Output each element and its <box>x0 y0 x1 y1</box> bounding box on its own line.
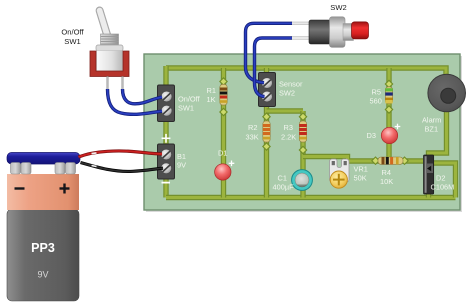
pushbutton SW2 <box>291 17 369 48</box>
label R2 33K <box>246 123 259 141</box>
svg-text:9V: 9V <box>37 270 48 280</box>
wire: D2 bottom to ground rail <box>426 189 431 198</box>
trimmer VR1 <box>330 159 350 188</box>
node via R2 top <box>263 113 270 120</box>
svg-text:VR1: VR1 <box>354 165 368 174</box>
wire: left rail (SW1 terminal to B1 terminal to bottom rail) <box>163 66 168 198</box>
terminal block On/Off SW1 <box>158 85 175 122</box>
terminal block B1 <box>158 144 175 179</box>
node via R1 bottom <box>220 108 227 115</box>
wire: sensor / R2 branch <box>264 68 269 198</box>
buzzer BZ1 <box>428 74 466 112</box>
label VR1 50K <box>354 165 368 183</box>
svg-text:400µF: 400µF <box>273 182 295 191</box>
resistor R3 <box>299 121 306 142</box>
svg-text:9V: 9V <box>177 160 186 169</box>
svg-text:C1: C1 <box>278 174 287 183</box>
wire: battery - (black) to B1 terminal bottom <box>81 163 164 172</box>
svg-text:On/Off: On/Off <box>61 28 84 37</box>
label D2 C106M <box>431 174 455 192</box>
node via R5 top <box>385 80 392 87</box>
svg-text:SW1: SW1 <box>178 104 194 113</box>
label D3 <box>367 131 376 140</box>
svg-text:R5: R5 <box>372 88 381 97</box>
resistor R1 <box>220 84 227 105</box>
label R3 2.2K <box>281 123 296 141</box>
svg-text:PP3: PP3 <box>31 241 55 255</box>
svg-text:D2: D2 <box>436 174 445 183</box>
svg-text:D3: D3 <box>367 131 376 140</box>
PCB board <box>144 54 462 212</box>
wire: top supply rail <box>166 68 446 80</box>
node via R1 top <box>220 78 227 85</box>
svg-text:C106M: C106M <box>431 182 455 191</box>
wire: buzzer to D2 top <box>429 100 447 158</box>
capacitor C1 <box>292 170 313 191</box>
svg-text:50K: 50K <box>354 173 367 182</box>
svg-text:33K: 33K <box>246 132 259 141</box>
label Alarm BZ1 <box>422 116 441 134</box>
svg-text:D1: D1 <box>218 149 227 158</box>
svg-text:2.2K: 2.2K <box>281 132 296 141</box>
resistor R5 <box>385 87 392 104</box>
polarity + of D1 <box>229 161 235 167</box>
label On/Off SW1 (terminal) <box>178 95 201 113</box>
power symbol - below B1 <box>162 182 171 184</box>
svg-text:560: 560 <box>370 97 382 106</box>
svg-text:Alarm: Alarm <box>422 116 441 125</box>
label Sensor SW2 <box>279 80 303 98</box>
label D1 <box>218 149 227 158</box>
label On/Off SW1 (toggle) <box>61 28 84 46</box>
svg-text:R3: R3 <box>284 123 293 132</box>
label R5 560 <box>370 88 382 106</box>
svg-text:R4: R4 <box>382 168 391 177</box>
wire: R1 / D1 branch <box>221 68 226 198</box>
wire: C1 to VR1 to R4 to D2 link <box>303 157 423 162</box>
polarity + of D3 <box>395 124 401 130</box>
wire: right riser from bottom rail to D2 right <box>433 163 456 198</box>
wire: R2 to R3 link <box>267 108 304 113</box>
battery B1 PP3 9V <box>7 153 80 302</box>
label R1 1K <box>207 86 216 104</box>
terminal block Sensor SW2 <box>259 73 276 107</box>
wire: SW1 right pin to On/Off terminal top <box>123 89 163 104</box>
label B1 9V <box>177 152 186 170</box>
toggle switch SW1 <box>90 11 129 94</box>
node via R4 left <box>372 157 379 164</box>
SCR D2 <box>424 155 434 194</box>
svg-text:BZ1: BZ1 <box>425 124 439 133</box>
label R4 10K <box>380 168 393 186</box>
svg-text:SW2: SW2 <box>330 3 346 12</box>
svg-text:SW1: SW1 <box>64 37 80 46</box>
svg-text:On/Off: On/Off <box>178 95 201 104</box>
wire: SW1 left pin to On/Off terminal bottom <box>108 89 163 114</box>
svg-text:SW2: SW2 <box>279 89 295 98</box>
wire: R3 / C1 branch <box>300 111 305 198</box>
svg-text:1K: 1K <box>207 95 216 104</box>
resistor R2 <box>263 121 270 142</box>
wire: R5 / D3 branch <box>386 68 391 161</box>
node via R3 bottom <box>299 146 306 153</box>
label SW2 <box>330 3 346 12</box>
wire: SW2 top pin to Sensor terminal top <box>246 23 293 82</box>
wire: bottom ground rail <box>166 195 456 200</box>
node via R2 bottom <box>263 143 270 150</box>
wire: SW2 bottom pin to Sensor terminal bottom <box>255 38 293 97</box>
resistor R4 (horizontal) <box>378 157 403 164</box>
LED D1 <box>215 164 231 180</box>
wire: battery + (red) to B1 terminal top <box>79 151 163 157</box>
LED D3 <box>381 127 397 143</box>
label C1 400uF <box>273 174 295 192</box>
svg-text:R2: R2 <box>248 123 257 132</box>
power symbol + above B1 <box>162 134 171 143</box>
svg-text:10K: 10K <box>380 177 393 186</box>
svg-text:Sensor: Sensor <box>279 80 303 89</box>
svg-text:R1: R1 <box>207 86 216 95</box>
node via R3 top <box>299 113 306 120</box>
node via R5 bottom <box>385 106 392 113</box>
node via R4 right <box>401 157 408 164</box>
